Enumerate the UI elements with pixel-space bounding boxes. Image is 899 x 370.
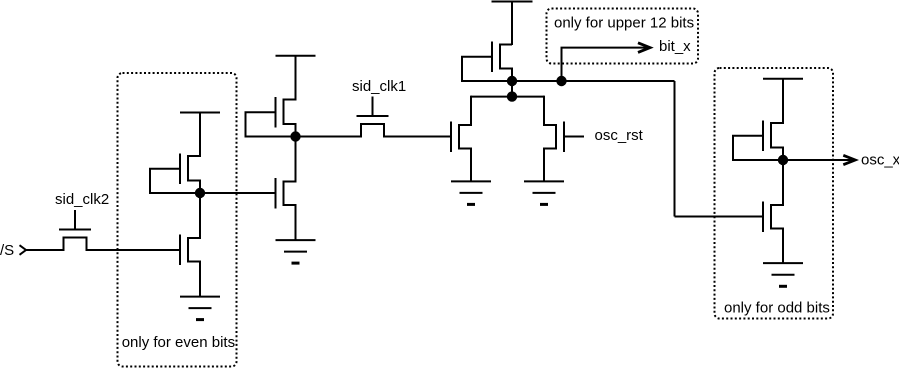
svg-text:sid_clk1: sid_clk1: [352, 78, 406, 95]
wire: node N2 to pass transistor sid_clk1: [296, 136, 362, 138]
node N4 junction dot: [507, 91, 517, 101]
ground stage 2: [276, 240, 316, 263]
VDD rail stage 2: [276, 56, 316, 101]
svg-text:only for odd bits: only for odd bits: [724, 299, 830, 316]
node N6 junction dot: [778, 155, 788, 165]
arrowhead bit_x: [638, 43, 650, 53]
ground stage 1: [180, 297, 220, 320]
ground odd stage: [763, 263, 803, 286]
wire: sid_clk2 to M3 gate: [87, 249, 181, 251]
arrowhead osc_x: [843, 155, 855, 164]
node N2 junction dot: [290, 131, 300, 141]
svg-text:/S: /S: [0, 242, 14, 259]
svg-text:only for upper 12 bits: only for upper 12 bits: [554, 14, 694, 31]
transistor M5 pass gate sid_clk1: [357, 97, 389, 138]
transistor M3 driver stage 1: [180, 192, 200, 297]
VDD rail odd stage: [763, 79, 803, 124]
input pin /S chevron: [20, 245, 27, 255]
transistor M6 depletion load stage 3: [462, 42, 512, 83]
transistor M4a depletion load stage 2: [246, 97, 296, 138]
transistor M7 driver (sid_clk1 side): [451, 96, 471, 182]
ground M7: [451, 181, 491, 204]
VDD rail stage 1: [180, 113, 220, 158]
wire: /S input to pass transistor sid_clk2: [26, 249, 64, 251]
svg-text:osc_rst: osc_rst: [595, 127, 644, 144]
transistor M1 pass gate sid_clk2: [59, 210, 91, 251]
transistor M4 driver stage 2: [276, 136, 296, 241]
wire: drain bus of M7 and M8: [471, 96, 544, 98]
VDD rail stage 3: [492, 2, 533, 46]
node N3 junction dot: [507, 76, 517, 86]
transistor M8 osc_rst (mirrored): [544, 96, 584, 182]
wire: node N3 down to node N4: [511, 81, 513, 97]
wire: node N1 to M4 gate: [200, 192, 276, 194]
wire: bit_x tap: [562, 48, 650, 81]
only for upper 12 bits dotted box: [547, 9, 699, 64]
svg-text:sid_clk2: sid_clk2: [55, 191, 109, 208]
ground M8: [524, 181, 564, 204]
transistor M2 depletion load stage 1: [150, 154, 200, 195]
svg-text:bit_x: bit_x: [659, 38, 691, 55]
odd bits dotted box: [715, 68, 834, 319]
svg-text:osc_x: osc_x: [861, 152, 899, 169]
svg-text:only for even bits: only for even bits: [122, 334, 235, 351]
wire: sid_clk1 to M7 gate: [384, 136, 451, 138]
node N5 junction dot (bit_x tap): [556, 76, 566, 86]
wire: right side vertical drop: [674, 81, 676, 217]
wire: to M10 gate: [675, 216, 764, 218]
even bits dotted box: [118, 73, 237, 367]
wire: node N3 to odd box (top run): [512, 80, 675, 82]
node N1 junction dot: [195, 188, 205, 198]
transistor M9 depletion load odd stage: [733, 121, 783, 162]
wire: node N6 to osc_x: [783, 159, 854, 161]
transistor M10 driver odd stage: [763, 159, 783, 263]
